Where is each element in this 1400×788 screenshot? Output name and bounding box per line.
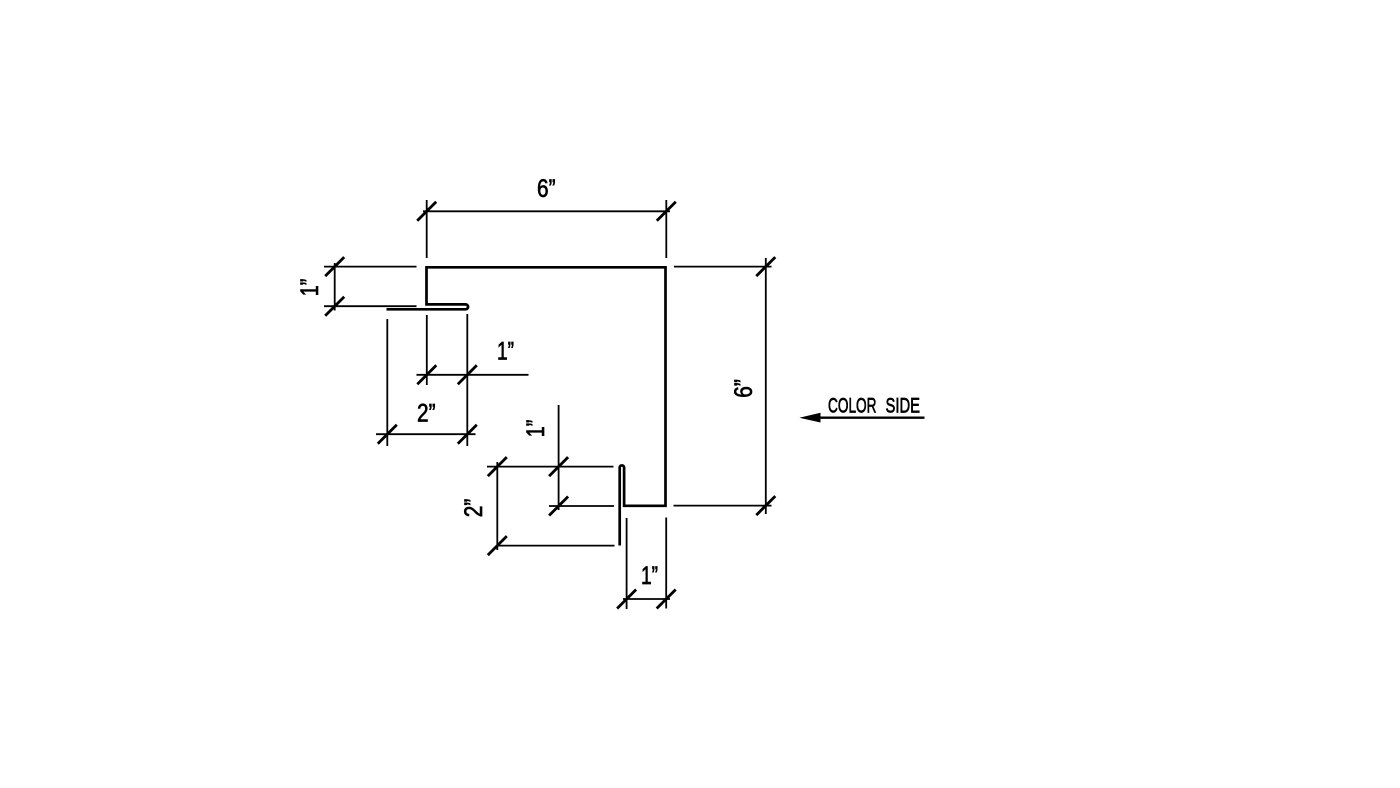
node: tick top xyxy=(756,257,775,276)
node: tick right xyxy=(458,365,477,384)
metal trim profile (6x6 corner with hemmed legs) xyxy=(387,267,666,545)
wire: dimension line xyxy=(334,263,336,311)
node: tick left xyxy=(617,590,636,609)
COLOR SIDE leader arrow xyxy=(806,417,925,419)
wire: dimension line xyxy=(423,210,670,212)
dimension D7: 2" (bottom hem return) xyxy=(497,462,614,550)
node: tick right xyxy=(657,590,676,609)
wire: profile outline xyxy=(387,267,666,545)
node: tick bottom xyxy=(549,497,568,516)
wire: arrow shaft / underline xyxy=(806,417,925,419)
node: arrowhead xyxy=(799,413,820,423)
svg-text:1”: 1” xyxy=(641,562,658,590)
wire: extension line right xyxy=(665,200,667,258)
dimension D4: 2" (top hem return) xyxy=(376,319,476,446)
svg-text:1”: 1” xyxy=(522,420,550,438)
svg-text:COLOR: COLOR xyxy=(828,395,877,418)
wire: extension line top xyxy=(674,266,772,268)
dimension D3: middle 1" (top hem) xyxy=(417,314,529,446)
wire: extension line bottom xyxy=(498,545,615,547)
wire: extension line right xyxy=(665,518,667,609)
wire: extension line left xyxy=(426,315,428,385)
dimension D1: top 6" xyxy=(423,200,670,258)
wire: extension line left xyxy=(386,319,388,446)
wire: extension line bottom xyxy=(549,505,614,507)
svg-text:1”: 1” xyxy=(497,338,514,366)
wire: extension line left xyxy=(426,200,428,258)
wire: extension line top xyxy=(324,266,417,268)
wire: extension line right xyxy=(466,314,468,446)
dimension D6: 1" (bottom upstand) xyxy=(487,405,614,510)
node: tick top xyxy=(549,457,568,476)
node: tick top xyxy=(325,257,344,276)
node: tick top xyxy=(488,457,507,476)
dimension D8: bottom 1" xyxy=(623,518,670,610)
svg-text:2”: 2” xyxy=(417,400,436,428)
wire: dimension line xyxy=(623,598,670,600)
svg-text:6”: 6” xyxy=(730,379,758,398)
node: tick left xyxy=(417,202,436,221)
node: tick bottom xyxy=(756,496,775,515)
wire: dimension line xyxy=(376,433,476,435)
node: tick bottom xyxy=(488,536,507,555)
wire: dimension line xyxy=(496,462,498,550)
dimension D2: left 1" xyxy=(324,263,417,311)
svg-text:2”: 2” xyxy=(460,499,488,518)
wire: dimension line xyxy=(765,258,767,514)
dimension D5: right 6" xyxy=(674,258,772,514)
wire: extension line bottom xyxy=(324,305,417,307)
node: tick right xyxy=(657,202,676,221)
wire: extension line bottom xyxy=(674,505,772,507)
node: tick right xyxy=(458,425,477,444)
svg-text:SIDE: SIDE xyxy=(886,395,921,418)
node: tick bottom xyxy=(325,297,344,316)
node: tick left xyxy=(417,365,436,384)
wire: dimension line xyxy=(558,405,560,510)
wire: dimension line xyxy=(417,374,529,376)
node: tick left xyxy=(378,425,397,444)
svg-text:6”: 6” xyxy=(537,175,556,203)
wire: extension line top (shared with D7) xyxy=(487,466,614,468)
svg-text:1”: 1” xyxy=(296,279,324,297)
wire: extension line left xyxy=(626,518,628,609)
